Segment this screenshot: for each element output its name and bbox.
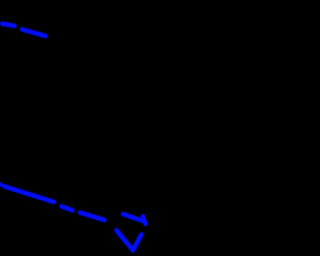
wire: top-left dashed stroke, dash 1 [2, 24, 14, 26]
wire: V check shape, left arm [117, 230, 134, 250]
wire: arrowhead barb stroke [143, 216, 146, 224]
freehand dashed blue annotation sketch on black canvas [0, 0, 256, 256]
wire: main dashed line, final dash to arrow tip [123, 214, 143, 221]
wire: main dashed line, long dash [5, 186, 55, 202]
wire: main dashed line, short dash [62, 206, 73, 210]
wire: main dashed line, medium dash [80, 213, 105, 220]
wire: top-left dashed stroke, dash 2 [22, 29, 46, 36]
wire: main dashed line, leading dot at left edge [0, 184, 1, 185]
wire: V check shape, right arm [133, 235, 141, 251]
